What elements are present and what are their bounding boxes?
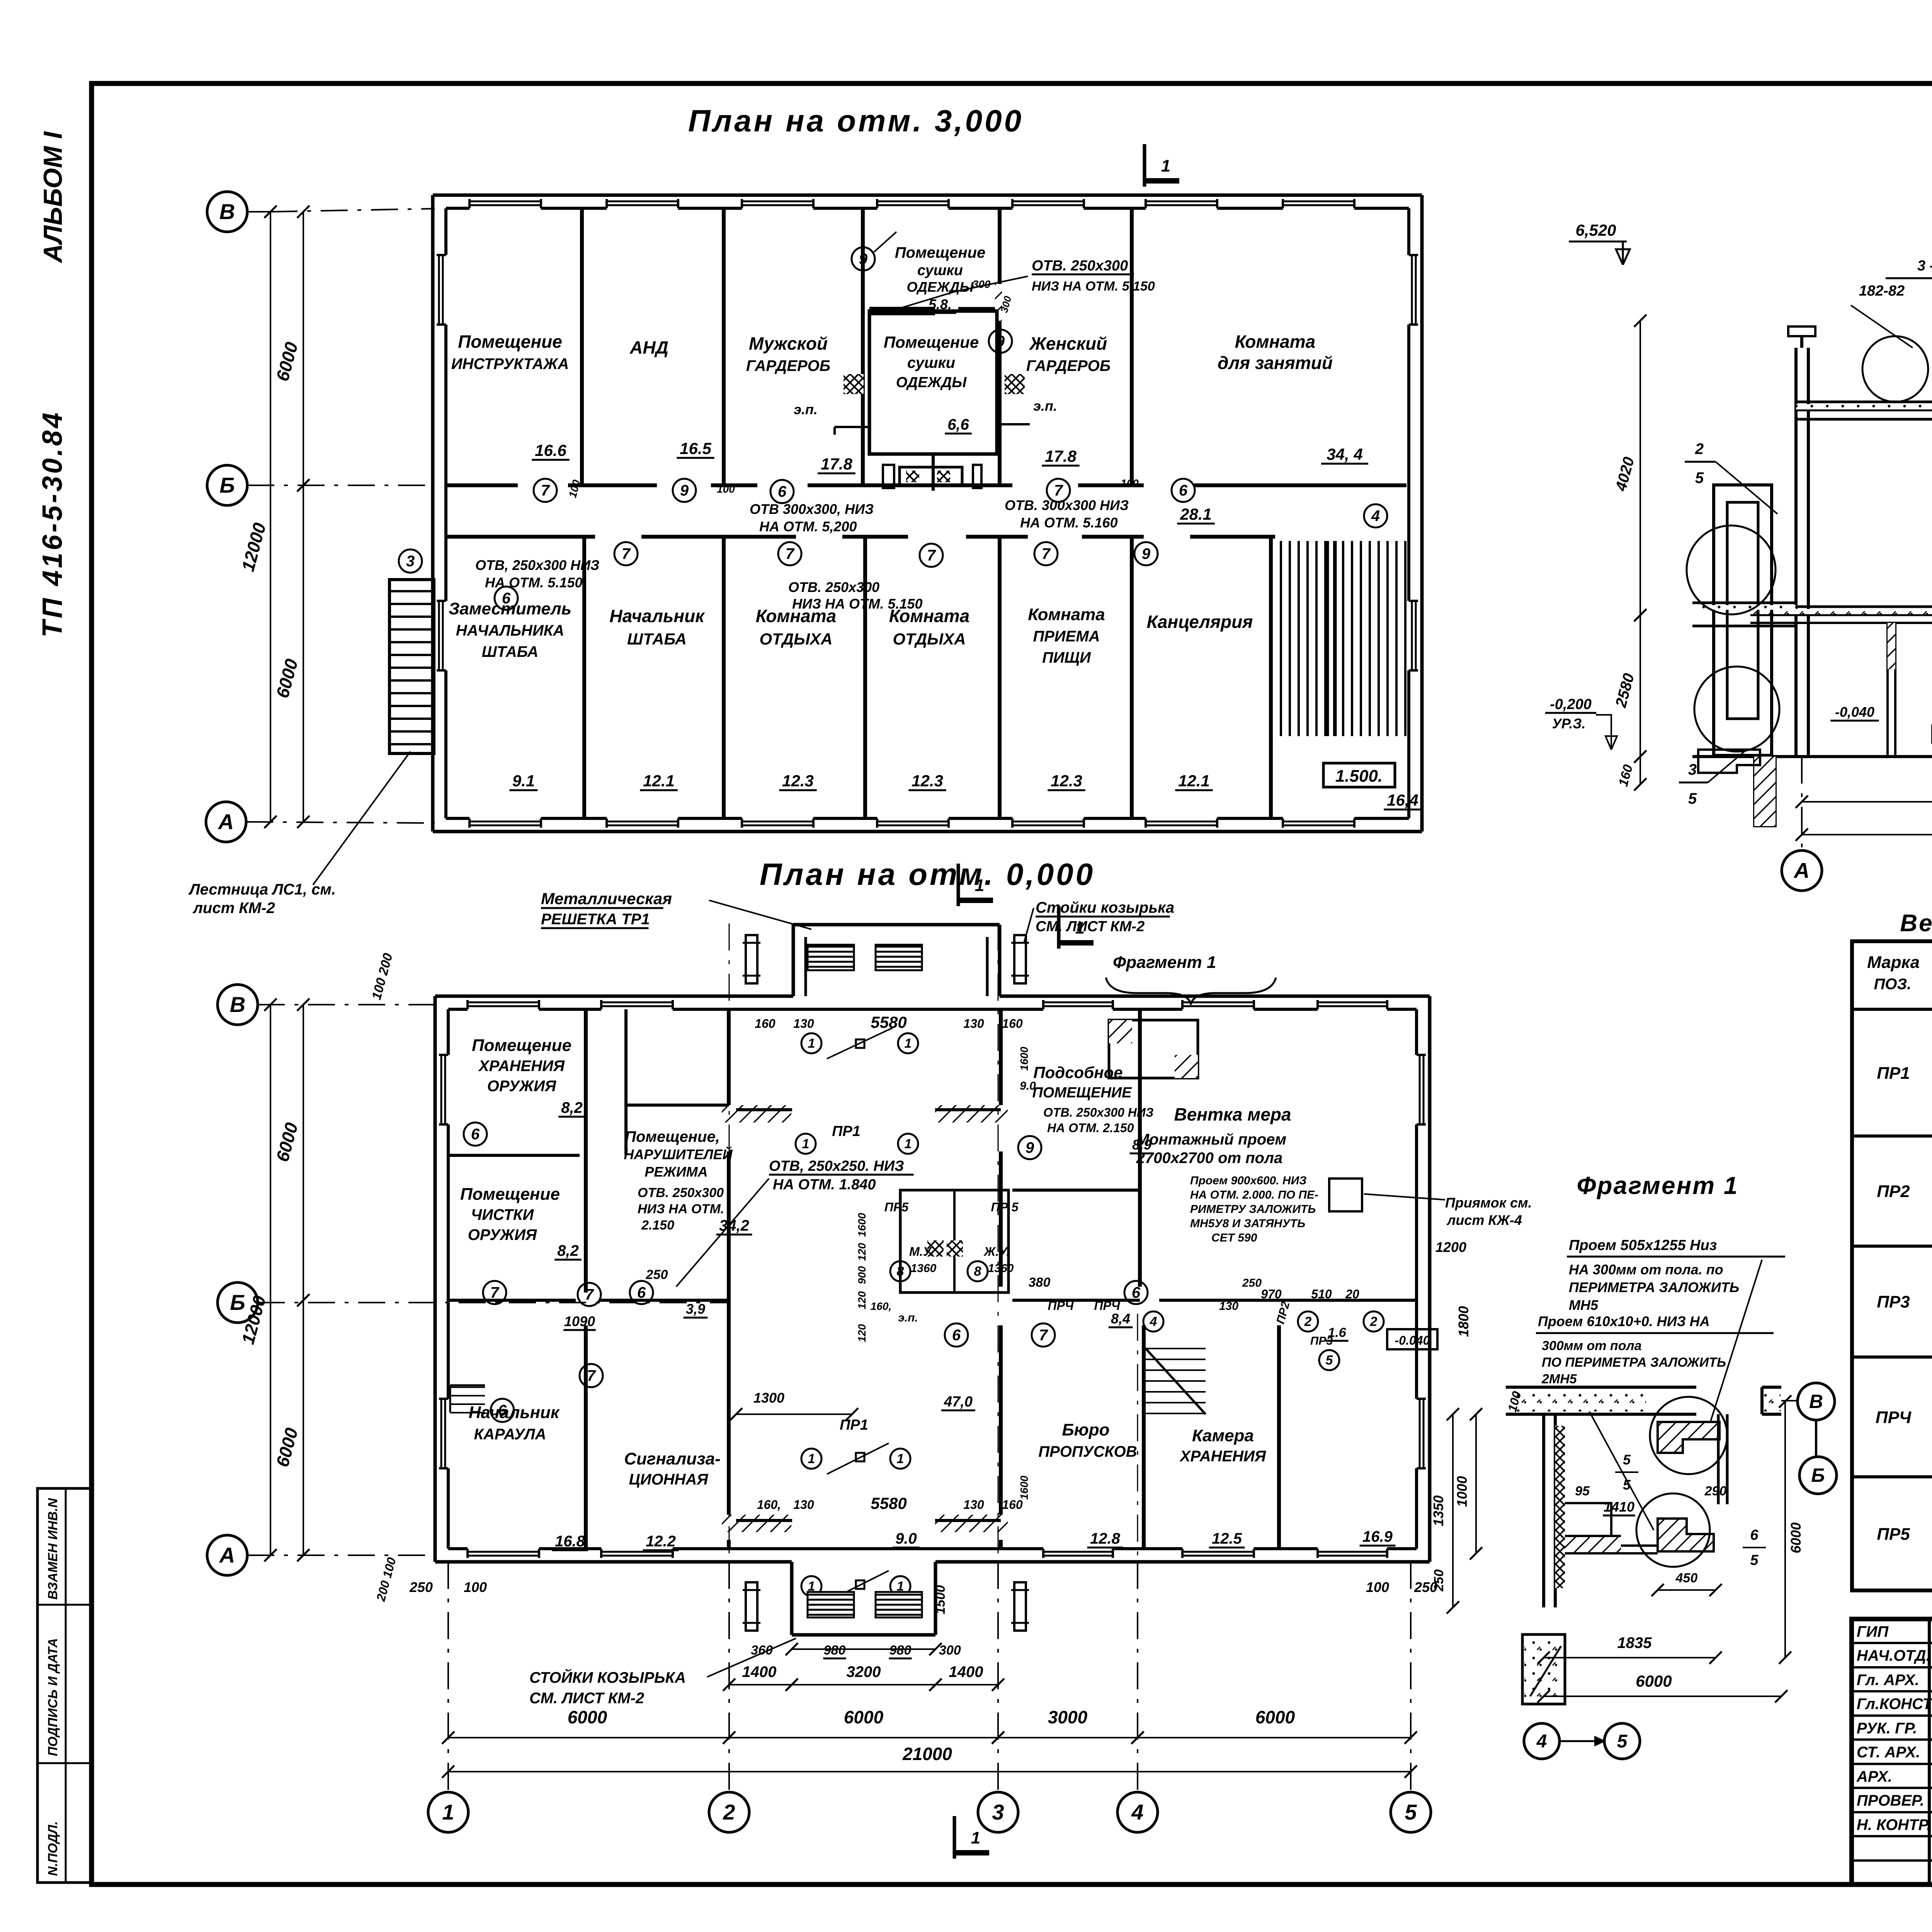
svg-text:-0,040: -0,040	[1835, 704, 1874, 720]
svg-text:ПР2: ПР2	[1877, 1182, 1910, 1201]
svg-text:1350: 1350	[1430, 1495, 1446, 1526]
svg-text:ПР3: ПР3	[1877, 1293, 1910, 1311]
svg-text:Помещение: Помещение	[884, 333, 979, 351]
svg-text:1300: 1300	[753, 1390, 784, 1406]
svg-text:100: 100	[566, 478, 583, 499]
svg-text:4: 4	[1131, 1800, 1143, 1824]
svg-text:лист КЖ-4: лист КЖ-4	[1446, 1212, 1522, 1228]
svg-text:5: 5	[1695, 469, 1704, 486]
canopy posts bottom	[746, 1582, 757, 1631]
svg-text:250: 250	[1432, 1570, 1446, 1592]
svg-text:2: 2	[1695, 440, 1704, 457]
svg-text:970: 970	[1261, 1287, 1282, 1301]
svg-text:9: 9	[1026, 1139, 1034, 1156]
svg-text:ГАРДЕРОБ: ГАРДЕРОБ	[1026, 357, 1111, 374]
fragment drawing top wall	[1506, 1386, 1696, 1389]
lower plan left dims	[270, 1005, 271, 1555]
svg-text:МН5: МН5	[1569, 1297, 1599, 1313]
grid circle V lower	[218, 985, 258, 1025]
svg-text:сушки: сушки	[907, 354, 955, 371]
svg-text:Стойки козырька: Стойки козырька	[1036, 899, 1174, 916]
svg-text:1600: 1600	[1018, 1475, 1030, 1500]
svg-text:6000: 6000	[1636, 1672, 1672, 1690]
entrance steps left	[450, 1386, 485, 1388]
svg-text:Канцелярия: Канцелярия	[1147, 612, 1253, 632]
svg-text:3,9: 3,9	[686, 1301, 705, 1317]
svg-text:1: 1	[905, 1137, 912, 1151]
svg-text:100: 100	[1121, 477, 1139, 489]
svg-text:ОТВ. 250x300: ОТВ. 250x300	[1032, 258, 1128, 274]
svg-text:ХРАНЕНИЯ: ХРАНЕНИЯ	[1179, 1448, 1266, 1465]
svg-text:3: 3	[1688, 761, 1697, 778]
svg-text:1400: 1400	[949, 1663, 983, 1680]
svg-text:16.5: 16.5	[680, 439, 711, 457]
svg-text:НИЗ НА ОТМ. 5.150: НИЗ НА ОТМ. 5.150	[792, 596, 923, 612]
svg-text:3200: 3200	[847, 1663, 881, 1680]
svg-text:В: В	[230, 992, 245, 1017]
svg-text:НИЗ НА ОТМ.: НИЗ НА ОТМ.	[638, 1202, 724, 1216]
bottom canopy	[790, 1562, 794, 1635]
svg-text:16.6: 16.6	[535, 441, 566, 459]
svg-text:ПРЧ: ПРЧ	[1094, 1299, 1120, 1313]
upper plan partitions upper rooms	[580, 208, 584, 485]
svg-text:Приямок см.: Приямок см.	[1445, 1195, 1532, 1211]
svg-text:1800: 1800	[1456, 1306, 1471, 1337]
svg-text:6: 6	[471, 1126, 480, 1143]
svg-text:9: 9	[996, 333, 1005, 350]
svg-text:7: 7	[1054, 482, 1063, 499]
svg-text:ЦИОННАЯ: ЦИОННАЯ	[629, 1471, 709, 1488]
svg-text:СМ. ЛИСТ КМ-2: СМ. ЛИСТ КМ-2	[1036, 918, 1145, 935]
svg-text:510: 510	[1311, 1287, 1332, 1301]
svg-text:НАЧАЛЬНИКА: НАЧАЛЬНИКА	[456, 622, 564, 639]
svg-text:НИЗ НА ОТМ. 5,150: НИЗ НА ОТМ. 5,150	[1032, 279, 1155, 294]
svg-text:380: 380	[1029, 1275, 1051, 1290]
svg-text:НАРУШИТЕЛЕЙ: НАРУШИТЕЛЕЙ	[624, 1146, 733, 1162]
svg-text:1090: 1090	[564, 1313, 595, 1329]
svg-text:Фрагмент 1: Фрагмент 1	[1577, 1172, 1738, 1199]
svg-text:Бюро: Бюро	[1062, 1420, 1110, 1439]
svg-text:7: 7	[1042, 546, 1051, 563]
svg-text:Подсобное: Подсобное	[1033, 1063, 1122, 1082]
svg-text:ПРОВЕР.: ПРОВЕР.	[1857, 1792, 1924, 1809]
svg-text:2700x2700 от пола: 2700x2700 от пола	[1136, 1150, 1282, 1167]
svg-text:ШТАБА: ШТАБА	[482, 643, 539, 660]
svg-text:ПО ПЕРИМЕТРА ЗАЛОЖИТЬ: ПО ПЕРИМЕТРА ЗАЛОЖИТЬ	[1542, 1355, 1726, 1370]
svg-text:182-82: 182-82	[1859, 283, 1905, 299]
lower plan circled numbers	[483, 1281, 506, 1304]
svg-text:для занятий: для занятий	[1218, 353, 1333, 373]
svg-text:250: 250	[1242, 1277, 1262, 1289]
svg-text:1410: 1410	[1604, 1499, 1634, 1515]
svg-text:12.3: 12.3	[1051, 772, 1082, 790]
svg-text:Б: Б	[1811, 1464, 1825, 1486]
svg-text:6,6: 6,6	[947, 416, 969, 433]
svg-text:ПР1: ПР1	[832, 1123, 861, 1139]
svg-text:300мм от пола: 300мм от пола	[1542, 1338, 1642, 1353]
svg-text:НА ОТМ. 1.840: НА ОТМ. 1.840	[773, 1177, 876, 1193]
svg-text:ОРУЖИЯ: ОРУЖИЯ	[468, 1226, 537, 1243]
svg-text:НА 300мм от пола. по: НА 300мм от пола. по	[1569, 1262, 1723, 1277]
svg-text:4: 4	[1150, 1315, 1157, 1329]
upper plan left outside staircase	[389, 580, 434, 753]
svg-text:28.1: 28.1	[1180, 505, 1212, 523]
svg-text:1: 1	[971, 1828, 980, 1847]
svg-text:ПРИЕМА: ПРИЕМА	[1033, 628, 1100, 645]
svg-text:12.2: 12.2	[646, 1533, 676, 1550]
svg-text:э.п.: э.п.	[898, 1311, 918, 1324]
svg-text:1600: 1600	[1018, 1046, 1030, 1071]
svg-text:НА ОТМ. 5,200: НА ОТМ. 5,200	[759, 519, 857, 534]
svg-text:КАРАУЛА: КАРАУЛА	[474, 1426, 546, 1443]
svg-text:7: 7	[585, 1286, 594, 1303]
svg-text:А: А	[219, 1543, 235, 1567]
svg-text:Мужской: Мужской	[749, 333, 828, 354]
lower plan vestibule top	[792, 925, 795, 996]
grid circle A lower	[207, 1535, 247, 1575]
section ground line	[1692, 755, 1932, 758]
svg-text:160,: 160,	[757, 1498, 781, 1512]
hall inner wing walls	[736, 1108, 792, 1111]
svg-text:6000: 6000	[1255, 1707, 1295, 1727]
svg-text:6: 6	[1179, 482, 1188, 499]
svg-text:9.1: 9.1	[512, 772, 535, 790]
section left dim line	[1639, 321, 1641, 615]
svg-text:1: 1	[905, 1036, 912, 1051]
svg-text:2: 2	[1304, 1315, 1312, 1329]
svg-text:1000: 1000	[1454, 1476, 1470, 1507]
upper left corner room detail	[1109, 1020, 1198, 1078]
svg-text:Б: Б	[219, 473, 235, 497]
grid circle B upper	[207, 465, 247, 505]
section flag lower plan top	[1057, 906, 1061, 949]
upper plan right staircase	[1280, 541, 1282, 736]
svg-text:980: 980	[889, 1643, 912, 1658]
grid circle B lower	[218, 1282, 258, 1323]
vent chamber pit	[1329, 1179, 1362, 1211]
svg-text:5: 5	[1623, 1477, 1631, 1493]
svg-text:Б: Б	[230, 1290, 245, 1315]
svg-text:СТ. АРХ.: СТ. АРХ.	[1857, 1744, 1920, 1761]
svg-text:ОТВ, 250x250. НИЗ: ОТВ, 250x250. НИЗ	[769, 1158, 904, 1174]
svg-text:1600: 1600	[856, 1213, 868, 1237]
svg-text:21000: 21000	[902, 1744, 952, 1764]
svg-text:СМ. ЛИСТ КМ-2: СМ. ЛИСТ КМ-2	[529, 1690, 644, 1707]
svg-text:100: 100	[464, 1579, 487, 1595]
svg-text:МН5У8 И ЗАТЯНУТЬ: МН5У8 И ЗАТЯНУТЬ	[1190, 1217, 1305, 1230]
svg-text:4: 4	[1536, 1731, 1547, 1752]
svg-text:Н. КОНТР.: Н. КОНТР.	[1857, 1816, 1931, 1833]
svg-text:1200: 1200	[1435, 1239, 1466, 1255]
svg-text:4: 4	[1371, 508, 1380, 525]
svg-text:6: 6	[1132, 1284, 1141, 1301]
svg-text:Ведомость перемычек: Ведомость перемычек	[1900, 910, 1932, 937]
section footing left	[1754, 757, 1776, 826]
svg-text:100: 100	[717, 483, 735, 495]
svg-text:5: 5	[1623, 1452, 1631, 1468]
canopy posts top	[746, 935, 757, 983]
upper plan corridor circled numbers	[534, 479, 557, 502]
svg-text:ПЕРИМЕТРА ЗАЛОЖИТЬ: ПЕРИМЕТРА ЗАЛОЖИТЬ	[1569, 1279, 1739, 1295]
svg-text:ПР2: ПР2	[1274, 1300, 1292, 1325]
svg-text:Помещение: Помещение	[460, 1185, 560, 1204]
svg-text:6: 6	[637, 1284, 646, 1301]
svg-text:1400: 1400	[742, 1663, 777, 1680]
svg-text:1.500.: 1.500.	[1335, 767, 1383, 786]
svg-text:6,520: 6,520	[1575, 221, 1616, 239]
svg-text:-0.040: -0.040	[1395, 1333, 1430, 1347]
svg-text:3 - 3: 3 - 3	[1917, 258, 1932, 274]
svg-text:300: 300	[939, 1643, 961, 1658]
svg-text:ПР5: ПР5	[884, 1200, 909, 1214]
svg-text:6000: 6000	[272, 1120, 302, 1164]
svg-text:2580: 2580	[1612, 672, 1638, 709]
svg-text:А: А	[218, 810, 234, 834]
svg-text:ОРУЖИЯ: ОРУЖИЯ	[487, 1078, 556, 1095]
svg-text:ПОДПИСЬ И ДАТА: ПОДПИСЬ И ДАТА	[46, 1638, 60, 1756]
svg-text:Вентка мера: Вентка мера	[1174, 1104, 1291, 1124]
fragment bottom ledge	[1565, 1503, 1658, 1546]
svg-text:7: 7	[587, 1367, 596, 1384]
svg-text:4020: 4020	[1612, 455, 1638, 493]
svg-text:ТП 416-5-30.84: ТП 416-5-30.84	[37, 410, 68, 638]
svg-text:ОТВ. 300x300 НИЗ: ОТВ. 300x300 НИЗ	[1005, 497, 1129, 513]
lintel table frame	[1852, 941, 1932, 1590]
svg-text:План на отм. 3,000: План на отм. 3,000	[688, 104, 1024, 138]
svg-text:250: 250	[409, 1579, 433, 1595]
svg-text:980: 980	[824, 1643, 846, 1658]
svg-text:Помещение: Помещение	[895, 244, 986, 261]
svg-text:Женский: Женский	[1029, 333, 1107, 354]
svg-text:6000: 6000	[272, 1425, 302, 1469]
svg-text:120: 120	[856, 1243, 868, 1261]
svg-text:РУК. ГР.: РУК. ГР.	[1857, 1720, 1917, 1737]
svg-text:N.ПОДЛ.: N.ПОДЛ.	[46, 1821, 60, 1876]
section roof slab	[1796, 401, 1932, 403]
fragment right edge	[1760, 1387, 1764, 1414]
svg-text:Фрагмент 1: Фрагмент 1	[1113, 953, 1216, 972]
svg-text:250: 250	[646, 1267, 668, 1282]
svg-text:сушки: сушки	[917, 262, 963, 279]
section floor slab	[1750, 605, 1932, 608]
svg-text:130: 130	[963, 1498, 984, 1512]
svg-text:В: В	[1809, 1391, 1823, 1412]
svg-text:1835: 1835	[1617, 1634, 1652, 1651]
svg-text:160,: 160,	[871, 1300, 892, 1312]
svg-text:6: 6	[778, 483, 787, 500]
svg-text:120: 120	[856, 1291, 868, 1309]
svg-text:ПОЗ.: ПОЗ.	[1874, 976, 1912, 993]
svg-text:ОТВ. 250x300: ОТВ. 250x300	[638, 1185, 724, 1200]
svg-text:РЕШЕТКА ТР1: РЕШЕТКА ТР1	[541, 911, 650, 928]
svg-text:5: 5	[1326, 1353, 1333, 1368]
svg-text:6000: 6000	[1788, 1522, 1804, 1553]
canopy dims	[792, 1648, 935, 1650]
svg-text:7: 7	[927, 547, 936, 564]
svg-text:1: 1	[808, 1036, 815, 1051]
svg-text:Камера: Камера	[1192, 1426, 1254, 1445]
svg-text:8: 8	[897, 1264, 904, 1279]
svg-text:ПР5: ПР5	[1877, 1525, 1910, 1544]
svg-text:9: 9	[859, 251, 868, 268]
svg-text:9: 9	[1142, 546, 1151, 563]
fragment lintel detail top	[1658, 1422, 1719, 1453]
svg-text:СТОЙКИ КОЗЫРЬКА: СТОЙКИ КОЗЫРЬКА	[529, 1668, 686, 1686]
svg-text:ОТВ. 250x300: ОТВ. 250x300	[788, 579, 879, 595]
svg-text:В: В	[219, 199, 235, 224]
svg-text:5580: 5580	[871, 1494, 906, 1512]
section bottom dims	[1802, 801, 1932, 803]
svg-text:НАЧ.ОТД.: НАЧ.ОТД.	[1857, 1647, 1930, 1664]
svg-text:300: 300	[973, 278, 991, 290]
svg-text:8,4: 8,4	[1111, 1311, 1130, 1327]
svg-text:АНД: АНД	[629, 337, 668, 357]
svg-text:АЛЬБОМ I: АЛЬБОМ I	[38, 131, 68, 264]
svg-text:ОТДЫХА: ОТДЫХА	[893, 630, 966, 648]
svg-text:7: 7	[1039, 1327, 1048, 1344]
title block frame	[1852, 1619, 1932, 1884]
fragment left wall	[1542, 1414, 1545, 1607]
svg-text:РЕЖИМА: РЕЖИМА	[645, 1164, 707, 1180]
svg-text:2.150: 2.150	[641, 1218, 674, 1233]
lower plan left block partitions	[584, 1009, 588, 1293]
svg-text:7: 7	[786, 546, 795, 563]
svg-text:47,0: 47,0	[944, 1394, 973, 1410]
svg-text:1: 1	[1075, 918, 1085, 937]
svg-text:160: 160	[755, 1017, 776, 1031]
svg-text:ОТВ, 250x300 НИЗ: ОТВ, 250x300 НИЗ	[475, 557, 599, 573]
svg-text:Сигнализа-: Сигнализа-	[624, 1449, 721, 1468]
svg-text:95: 95	[1575, 1484, 1590, 1498]
svg-text:100: 100	[1366, 1579, 1389, 1595]
svg-text:А: А	[1793, 858, 1810, 883]
lower plan outer walls	[435, 995, 793, 998]
svg-text:130: 130	[963, 1017, 984, 1031]
svg-text:э.п.: э.п.	[794, 401, 818, 417]
svg-text:ПР1: ПР1	[840, 1417, 868, 1433]
svg-text:ПИЩИ: ПИЩИ	[1042, 649, 1091, 666]
svg-text:6000: 6000	[568, 1707, 607, 1727]
svg-text:12.8: 12.8	[1090, 1530, 1121, 1547]
svg-text:200 100: 200 100	[374, 1556, 399, 1603]
svg-text:16,4: 16,4	[1387, 791, 1418, 809]
lower plan bottom grid dims	[448, 1737, 729, 1738]
svg-text:ПР 5: ПР 5	[991, 1200, 1019, 1214]
svg-text:Проем 900x600. НИЗ: Проем 900x600. НИЗ	[1190, 1174, 1306, 1187]
svg-text:120: 120	[856, 1324, 868, 1342]
svg-text:Металлическая: Металлическая	[541, 889, 672, 908]
svg-text:8,2: 8,2	[557, 1242, 579, 1259]
svg-text:12.5: 12.5	[1212, 1530, 1242, 1547]
svg-text:130: 130	[793, 1498, 814, 1512]
fragment lintel detail bottom	[1658, 1519, 1714, 1551]
svg-text:8: 8	[974, 1264, 981, 1279]
upper plan outer walls with windows	[433, 194, 1422, 197]
svg-text:ПРОПУСКОВ: ПРОПУСКОВ	[1038, 1443, 1137, 1460]
upper plan drying room	[869, 311, 997, 454]
section cut mark top	[1143, 144, 1146, 187]
svg-text:УР.З.: УР.З.	[1552, 716, 1585, 731]
svg-text:160: 160	[1002, 1017, 1023, 1031]
svg-text:6: 6	[498, 1402, 507, 1419]
svg-text:6000: 6000	[272, 656, 302, 700]
svg-text:7: 7	[541, 482, 550, 499]
svg-text:34, 4: 34, 4	[1327, 445, 1362, 463]
fragment jamb lines	[1717, 1414, 1720, 1504]
svg-text:НА ОТМ. 2.000. ПО ПЕ-: НА ОТМ. 2.000. ПО ПЕ-	[1190, 1189, 1318, 1201]
svg-text:12.3: 12.3	[912, 772, 943, 790]
turnstiles below drying room	[932, 454, 935, 491]
svg-text:Ж.У.: Ж.У.	[983, 1245, 1010, 1259]
svg-text:1: 1	[897, 1452, 904, 1466]
svg-text:1: 1	[808, 1452, 815, 1466]
svg-text:7: 7	[622, 546, 631, 563]
svg-text:ХРАНЕНИЯ: ХРАНЕНИЯ	[478, 1058, 565, 1075]
svg-text:5: 5	[1405, 1800, 1417, 1824]
svg-text:9.0: 9.0	[895, 1530, 917, 1547]
svg-text:5580: 5580	[871, 1013, 906, 1031]
svg-text:1360: 1360	[911, 1262, 937, 1275]
grid circle V upper	[207, 192, 247, 232]
svg-text:8,2: 8,2	[561, 1099, 583, 1116]
svg-text:1360: 1360	[988, 1262, 1014, 1275]
svg-text:АРХ.: АРХ.	[1856, 1768, 1892, 1785]
section cut mark bottom upper plan	[957, 864, 960, 906]
upper plan corridor walls	[446, 483, 518, 487]
fragment footing	[1522, 1634, 1565, 1704]
svg-text:2МН5: 2МН5	[1541, 1372, 1577, 1386]
section left wall	[1794, 348, 1798, 755]
svg-text:ВЗАМЕН ИНВ.N: ВЗАМЕН ИНВ.N	[46, 1498, 60, 1600]
svg-text:6000: 6000	[272, 340, 302, 383]
svg-text:ИНСТРУКТАЖА: ИНСТРУКТАЖА	[451, 355, 569, 372]
title block name columns	[1928, 1619, 1931, 1884]
svg-text:Начальник: Начальник	[609, 606, 705, 626]
left stamp column	[37, 1488, 93, 1883]
svg-text:СЕТ 590: СЕТ 590	[1211, 1231, 1257, 1244]
svg-text:План на отм. 0,000: План на отм. 0,000	[760, 857, 1095, 891]
lower plan hall walls	[727, 1009, 731, 1105]
svg-text:Гл.КОНСТ.: Гл.КОНСТ.	[1857, 1696, 1932, 1713]
svg-text:1500: 1500	[933, 1585, 948, 1614]
svg-text:2: 2	[723, 1800, 735, 1824]
svg-text:20: 20	[1345, 1287, 1359, 1301]
svg-text:ГИП: ГИП	[1857, 1623, 1889, 1640]
svg-text:12.1: 12.1	[643, 772, 675, 790]
svg-text:450: 450	[1675, 1571, 1698, 1585]
section flag bottom	[953, 1816, 956, 1859]
svg-text:Проем 505x1255 Низ: Проем 505x1255 Низ	[1569, 1237, 1717, 1253]
svg-text:2: 2	[1370, 1315, 1378, 1329]
svg-text:ОТВ 300x300, НИЗ: ОТВ 300x300, НИЗ	[750, 501, 874, 517]
svg-text:Помещение: Помещение	[458, 332, 562, 352]
svg-text:лист КМ-2: лист КМ-2	[192, 900, 275, 917]
svg-text:100 200: 100 200	[369, 952, 396, 1002]
svg-text:РИМЕТРУ ЗАЛОЖИТЬ: РИМЕТРУ ЗАЛОЖИТЬ	[1190, 1203, 1316, 1216]
svg-text:ГАРДЕРОБ: ГАРДЕРОБ	[746, 357, 830, 374]
svg-text:360: 360	[751, 1643, 773, 1658]
svg-text:ШТАБА: ШТАБА	[627, 630, 687, 648]
svg-text:6: 6	[1750, 1527, 1759, 1543]
upper plan sushki top room wall	[869, 307, 935, 310]
svg-text:17.8: 17.8	[821, 455, 852, 473]
svg-text:ЧИСТКИ: ЧИСТКИ	[471, 1206, 534, 1223]
toilet cells	[900, 1190, 1009, 1293]
svg-text:НА ОТМ. 2.150: НА ОТМ. 2.150	[1047, 1121, 1134, 1135]
hall lintel hatches	[722, 1105, 791, 1122]
svg-text:6000: 6000	[844, 1707, 884, 1727]
svg-text:17.8: 17.8	[1045, 447, 1077, 465]
